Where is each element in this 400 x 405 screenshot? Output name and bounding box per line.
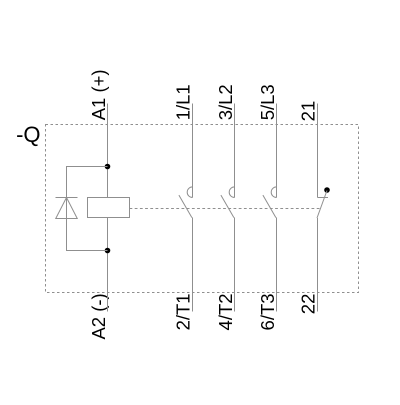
terminal label 5/L3 bbox=[257, 84, 278, 120]
svg-text:5/L3: 5/L3 bbox=[257, 84, 278, 120]
terminal label 21 bbox=[298, 101, 319, 122]
svg-text:-Q: -Q bbox=[16, 122, 40, 147]
wire 5/L3 top bbox=[276, 104, 278, 198]
diode V1 (surge suppressor) cathode bar bbox=[56, 197, 78, 199]
svg-text:22: 22 bbox=[298, 294, 319, 315]
terminal label 4/T2 bbox=[215, 293, 236, 330]
wire 2/T1 bottom bbox=[192, 218, 194, 312]
node junction top (A1 branch) bbox=[105, 164, 111, 170]
svg-text:2/T1: 2/T1 bbox=[172, 293, 193, 330]
svg-text:3/L2: 3/L2 bbox=[215, 84, 236, 120]
wire 1/L1 top bbox=[192, 104, 194, 198]
wire 22 bottom bbox=[317, 218, 319, 312]
main contact 1/L1-2/T1 moving blade bbox=[179, 195, 192, 218]
svg-text:1/L1: 1/L1 bbox=[172, 84, 193, 120]
terminal label 2/T1 bbox=[172, 293, 193, 330]
wire 3/L2 top bbox=[234, 104, 236, 198]
main contact 3/L2-4/T2 moving blade bbox=[221, 195, 234, 218]
wire 21 top bbox=[317, 104, 319, 198]
main contact 5/L3-6/T3 fixed contact arc bbox=[271, 187, 276, 198]
contactor outline -Q (dashed enclosure) bbox=[46, 125, 359, 293]
terminal label 1/L1 bbox=[172, 84, 193, 120]
svg-text:A1 (+): A1 (+) bbox=[88, 69, 109, 120]
terminal label 22 bbox=[298, 294, 319, 315]
NC auxiliary contact 21-22 moving blade bbox=[317, 191, 327, 219]
diode V1 (surge suppressor) anode triangle bbox=[56, 198, 78, 219]
wire A1 to coil bbox=[107, 104, 109, 198]
svg-text:A2 (-): A2 (-) bbox=[88, 293, 109, 339]
coil K1 (contactor coil) bbox=[88, 198, 130, 218]
NC auxiliary contact 21-22 contact dot bbox=[324, 187, 330, 193]
wire suppressor branch bbox=[67, 167, 108, 251]
svg-text:6/T3: 6/T3 bbox=[257, 293, 278, 330]
wire coil to A2 bbox=[107, 218, 109, 312]
terminal label A1 (+) bbox=[88, 69, 109, 120]
terminal label 6/T3 bbox=[257, 293, 278, 330]
node junction bottom (A2 branch) bbox=[105, 248, 111, 254]
mechanical linkage (dashed) bbox=[130, 208, 321, 210]
main contact 5/L3-6/T3 moving blade bbox=[263, 195, 276, 218]
NC auxiliary contact 21-22 fixed contact seat bbox=[318, 197, 329, 199]
main contact 1/L1-2/T1 fixed contact arc bbox=[187, 187, 192, 198]
label -Q bbox=[16, 122, 40, 147]
main contact 3/L2-4/T2 fixed contact arc bbox=[229, 187, 234, 198]
wire 4/T2 bottom bbox=[234, 218, 236, 312]
svg-text:21: 21 bbox=[298, 101, 319, 122]
terminal label A2 (-) bbox=[88, 293, 109, 339]
wire 6/T3 bottom bbox=[276, 218, 278, 312]
terminal label 3/L2 bbox=[215, 84, 236, 120]
svg-text:4/T2: 4/T2 bbox=[215, 293, 236, 330]
